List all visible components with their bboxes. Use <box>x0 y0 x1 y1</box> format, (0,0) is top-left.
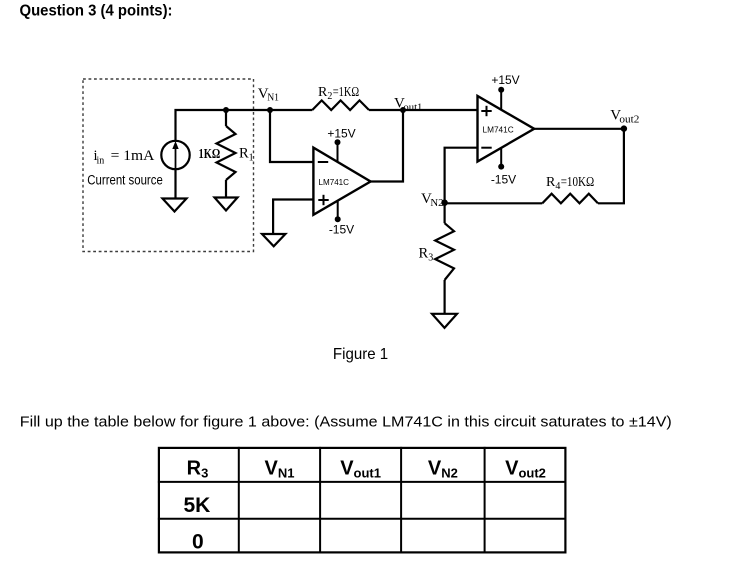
label VN1 <box>258 86 279 104</box>
wire: VN2 down to R3 top <box>444 203 446 223</box>
op-amp U2 <box>478 96 535 162</box>
label VN2 <box>421 191 444 209</box>
svg-text:1: 1 <box>249 153 254 164</box>
wire: R2 right to op-amp U2 + input, through Vout1 <box>369 109 478 111</box>
svg-text:R: R <box>239 146 249 162</box>
svg-text:LM741C: LM741C <box>483 125 514 134</box>
svg-text:1KΩ: 1KΩ <box>199 146 221 161</box>
op-amp U1 <box>313 148 370 215</box>
node VN1 junction dot <box>267 107 273 113</box>
wire: current source top to node A <box>176 110 227 141</box>
wire: U1 noninverting input left and down to ground <box>273 200 313 235</box>
wire: VN1 down and right to U1 inverting input <box>270 110 313 162</box>
ground (R3) <box>432 314 457 328</box>
label iin = 1mA <box>94 148 155 167</box>
resistor R3 <box>435 223 454 280</box>
node A junction dot <box>223 107 229 113</box>
svg-text:Question 3 (4 points):: Question 3 (4 points): <box>20 3 173 20</box>
node Vout1 junction dot <box>400 107 406 113</box>
node VN2 junction dot <box>441 200 447 206</box>
svg-text:-15V: -15V <box>491 172 516 186</box>
svg-text:2: 2 <box>327 91 332 102</box>
wire: U1 -15V supply stub <box>337 201 339 219</box>
wire: current source bottom to ground <box>174 170 176 199</box>
wire: Vout2 down to R4 right end <box>598 129 624 204</box>
svg-text:LM741C: LM741C <box>319 178 350 187</box>
svg-text:Fill up the table below for fi: Fill up the table below for figure 1 abo… <box>20 414 672 431</box>
svg-text:=10KΩ: =10KΩ <box>561 175 595 190</box>
ground (current source) <box>163 199 187 212</box>
node Vout2 junction dot <box>621 125 627 131</box>
label Vout2 <box>610 107 639 125</box>
svg-text:-15V: -15V <box>329 223 354 237</box>
svg-text:N2: N2 <box>430 198 443 209</box>
svg-text:0: 0 <box>192 531 204 554</box>
svg-text:4: 4 <box>555 181 560 192</box>
wire: U2 +15V supply stub <box>500 90 502 110</box>
U1 -15V terminal dot <box>335 216 341 222</box>
svg-text:Figure 1: Figure 1 <box>333 346 388 363</box>
U2 -15V terminal dot <box>498 164 504 170</box>
wire: R4 left end to VN2 node <box>445 202 543 204</box>
resistor R4 <box>542 194 598 204</box>
svg-text:3: 3 <box>428 253 433 264</box>
U2 +15V terminal dot <box>498 87 504 93</box>
ground (R1) <box>215 198 238 211</box>
wire: U1 output right and up to Vout1 node <box>371 110 403 182</box>
resistor R2 <box>312 100 369 110</box>
label Vout1 <box>394 96 422 114</box>
label R2=1KOhm <box>318 85 359 102</box>
svg-text:=1KΩ: =1KΩ <box>333 85 360 100</box>
wire: VN1 to R2 left <box>270 109 312 111</box>
svg-text:= 1mA: = 1mA <box>111 148 155 164</box>
resistor R1 <box>217 126 236 180</box>
wire: R3 bottom to ground <box>444 280 446 314</box>
table frame <box>158 447 567 553</box>
svg-text:in: in <box>97 156 105 167</box>
svg-text:Current source: Current source <box>87 173 163 188</box>
label R3 <box>419 246 434 264</box>
svg-text:+15V: +15V <box>491 73 519 87</box>
svg-text:out2: out2 <box>619 115 639 126</box>
svg-text:+15V: +15V <box>327 127 355 141</box>
wire: R1 bottom to ground <box>225 180 227 198</box>
svg-text:N1: N1 <box>267 93 279 104</box>
dashed source box <box>83 79 254 252</box>
wire: U2 -15V supply stub <box>500 148 502 167</box>
svg-text:5K: 5K <box>183 494 210 517</box>
wire: node A to node VN1 <box>226 109 270 111</box>
current source I1 <box>161 141 189 171</box>
svg-text:R: R <box>419 246 429 262</box>
label R1 <box>239 146 254 164</box>
label R4=10KOhm <box>546 175 594 192</box>
svg-text:out1: out1 <box>403 102 422 113</box>
U1 +15V terminal dot <box>335 139 341 145</box>
wire: U1 +15V supply stub <box>337 143 339 162</box>
wire: node A down to R1 top <box>225 110 227 126</box>
wire: U2 output to Vout2 node <box>534 128 624 130</box>
wire: U2 inverting input left and down to VN2 <box>445 148 478 203</box>
ground (U1 + input) <box>262 234 285 246</box>
